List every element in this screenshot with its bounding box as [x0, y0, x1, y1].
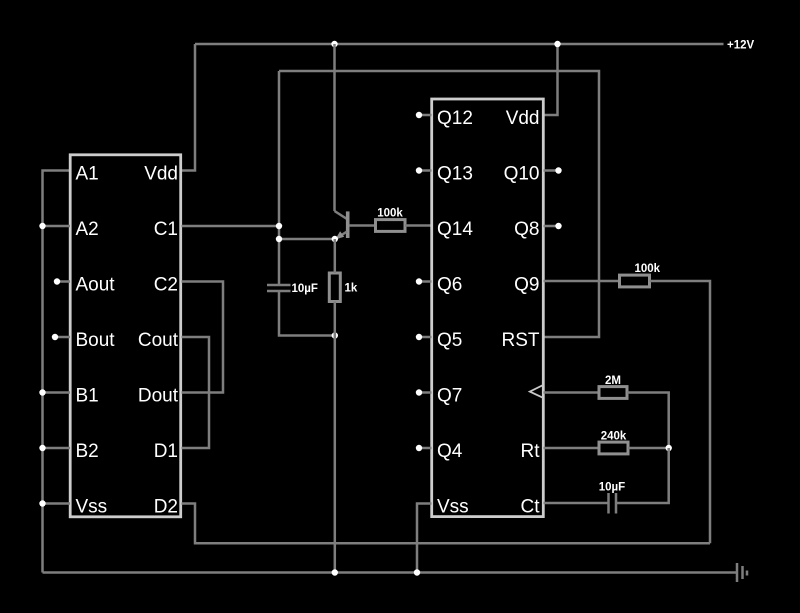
wire Q5 stub [419, 336, 432, 339]
node Q7 open dot [416, 389, 422, 395]
junction dot bottom rail x=417 [414, 569, 420, 575]
svg-text:D1: D1 [154, 441, 178, 462]
svg-text:Q6: Q6 [437, 275, 462, 296]
capacitor C1 10uF top plate [267, 284, 291, 287]
left vertical input rail [43, 171, 71, 573]
svg-text:C2: C2 [154, 275, 178, 296]
node Aout open dot [54, 278, 60, 284]
junction dot top rail at x=334.5 [331, 41, 337, 47]
wire emitter node branch [279, 238, 335, 241]
wire emitter to R2 [334, 239, 337, 273]
junction dot emitter [332, 236, 338, 242]
svg-text:A2: A2 [76, 219, 99, 240]
junction dot B1 rail [39, 389, 45, 395]
resistor R3 100k [620, 275, 650, 287]
junction dot emitter branch left [276, 236, 282, 242]
svg-text:240k: 240k [601, 431, 627, 443]
node Q4 open dot [416, 445, 422, 451]
junction dot B2 rail [39, 445, 45, 451]
svg-text:RST: RST [502, 330, 540, 351]
junction dot C1 [276, 223, 282, 229]
svg-text:Vss: Vss [437, 497, 469, 518]
IC U2 box [432, 99, 544, 517]
node Q13 open dot [416, 167, 422, 173]
wire Q8 stub [544, 225, 558, 228]
wire Q10 stub [544, 169, 558, 172]
svg-text:Bout: Bout [76, 330, 116, 351]
wire vertical from top rail to U1 Vdd [182, 44, 196, 171]
wire Q6 stub [419, 280, 432, 283]
svg-text:D2: D2 [154, 497, 178, 518]
wire Q13 stub [419, 169, 432, 172]
svg-text:Dout: Dout [138, 386, 179, 407]
junction dot cap/1k node [332, 332, 338, 338]
svg-text:A1: A1 [76, 164, 99, 185]
wire R5 to junction [628, 447, 669, 450]
wire Rt to R5 [544, 447, 600, 450]
resistor R2 1k [329, 273, 340, 302]
wire U1 Vss stub [43, 502, 71, 505]
wire U2 Vss to bottom rail [417, 504, 432, 573]
IC U1 box [70, 155, 181, 517]
wire R4 to right vertical [627, 393, 669, 449]
wire Aout stub [57, 280, 70, 283]
svg-text:Q5: Q5 [437, 330, 462, 351]
svg-text:Q12: Q12 [437, 108, 473, 129]
wire arrow row to R4 [544, 391, 600, 394]
resistor R1 100k [376, 220, 406, 232]
clock input arrow on U2 [530, 385, 543, 398]
junction dot Rt net [666, 445, 672, 451]
svg-text:+12V: +12V [727, 40, 755, 52]
wire R1 to Q14 [405, 224, 432, 227]
wire B1 stub [43, 391, 71, 394]
svg-text:Ct: Ct [521, 497, 541, 518]
junction dot A2 rail [39, 223, 45, 229]
svg-text:100k: 100k [377, 208, 403, 220]
svg-text:Q8: Q8 [514, 219, 539, 240]
wire C1 stub to vertical [182, 225, 280, 228]
ground symbol [737, 563, 747, 582]
svg-text:Q9: Q9 [514, 275, 539, 296]
wire R3 to right rail down to D2 net [650, 281, 711, 543]
wire Q12 stub [419, 114, 432, 117]
junction dot U1 Vss rail [39, 500, 45, 506]
node Q5 open dot [416, 334, 422, 340]
wire C2 to junction up [616, 448, 669, 503]
wire second rail to RST [279, 71, 599, 337]
svg-text:Q13: Q13 [437, 164, 473, 185]
resistor R5 240k [599, 442, 628, 454]
svg-text:C1: C1 [154, 219, 178, 240]
wire Q9 to R3 [544, 280, 620, 283]
svg-text:100k: 100k [635, 263, 661, 275]
node Bout open dot [52, 334, 58, 340]
svg-text:Aout: Aout [76, 275, 116, 296]
svg-text:B1: B1 [76, 386, 99, 407]
svg-text:Q7: Q7 [437, 386, 462, 407]
wire Ct stub [544, 502, 609, 505]
wire R2 to bottom rail [334, 302, 337, 573]
svg-text:10µF: 10µF [292, 283, 318, 295]
wire bottom ground rail [43, 571, 738, 574]
capacitor C2 10uF left plate [607, 493, 610, 514]
wire B2 stub [43, 447, 71, 450]
junction dot top rail at x=557.5 [554, 41, 560, 47]
svg-text:Vss: Vss [76, 497, 108, 518]
node Q8 open dot [555, 223, 561, 229]
node Q6 open dot [416, 278, 422, 284]
svg-text:Rt: Rt [521, 441, 541, 462]
wire Q4 stub [419, 447, 432, 450]
capacitor C2 10uF right plate [615, 493, 618, 514]
wire A2 stub [43, 225, 71, 228]
svg-text:Vdd: Vdd [506, 108, 540, 129]
svg-text:1k: 1k [345, 283, 358, 295]
wire C2 to Dout [182, 282, 224, 393]
wire vertical from rail2 down to C1 node and capacitor [278, 71, 281, 285]
wire top +12V rail [195, 43, 724, 46]
transistor Q1 [335, 44, 376, 240]
wire Bout stub [55, 336, 70, 339]
svg-text:Q4: Q4 [437, 441, 463, 462]
wire U2 Vdd to top rail [544, 44, 558, 115]
capacitor C1 10uF bottom plate [267, 290, 291, 293]
wire Q7 stub [419, 391, 432, 394]
node Q10 open dot [555, 167, 561, 173]
svg-text:2M: 2M [605, 375, 621, 387]
node Q12 open dot [416, 112, 422, 118]
svg-text:B2: B2 [76, 441, 99, 462]
wire D2 to bottom net [182, 504, 711, 544]
svg-text:Q14: Q14 [437, 219, 473, 240]
svg-text:10µF: 10µF [599, 482, 625, 494]
svg-text:Cout: Cout [138, 330, 179, 351]
wire C1 cap bottom lead [279, 291, 335, 336]
junction dot bottom rail x=334.8 [332, 569, 338, 575]
svg-text:Vdd: Vdd [144, 164, 178, 185]
svg-text:Q10: Q10 [504, 164, 540, 185]
wire Cout to D1 [182, 337, 210, 448]
resistor R4 2M [599, 387, 627, 399]
